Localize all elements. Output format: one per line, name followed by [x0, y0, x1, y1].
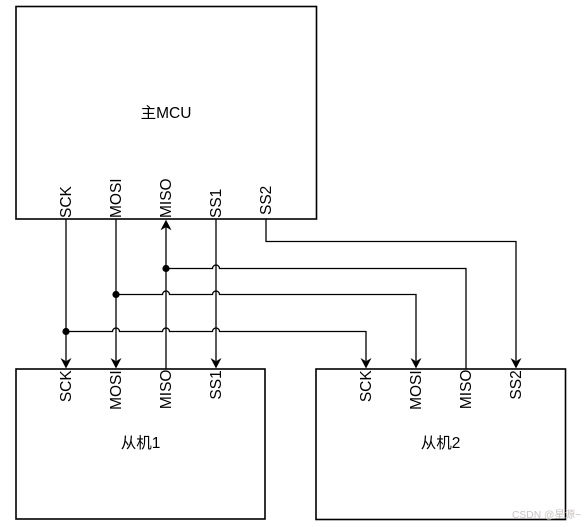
- svg-text:主MCU: 主MCU: [141, 104, 192, 122]
- svg-text:MOSI: MOSI: [108, 370, 125, 410]
- svg-text:MOSI: MOSI: [408, 370, 425, 410]
- svg-text:SS2: SS2: [508, 370, 525, 399]
- svg-text:SCK: SCK: [358, 370, 375, 403]
- svg-text:从机1: 从机1: [121, 434, 161, 452]
- svg-text:从机2: 从机2: [421, 434, 461, 452]
- svg-text:CSDN @星源~: CSDN @星源~: [512, 508, 581, 521]
- svg-text:MISO: MISO: [458, 370, 475, 410]
- svg-text:MISO: MISO: [158, 178, 175, 218]
- svg-text:MOSI: MOSI: [108, 178, 125, 218]
- svg-text:SS2: SS2: [258, 186, 275, 215]
- svg-text:MISO: MISO: [158, 370, 175, 410]
- svg-text:SCK: SCK: [58, 185, 75, 218]
- svg-text:SCK: SCK: [58, 370, 75, 403]
- svg-text:SS1: SS1: [208, 370, 225, 399]
- svg-text:SS1: SS1: [208, 189, 225, 218]
